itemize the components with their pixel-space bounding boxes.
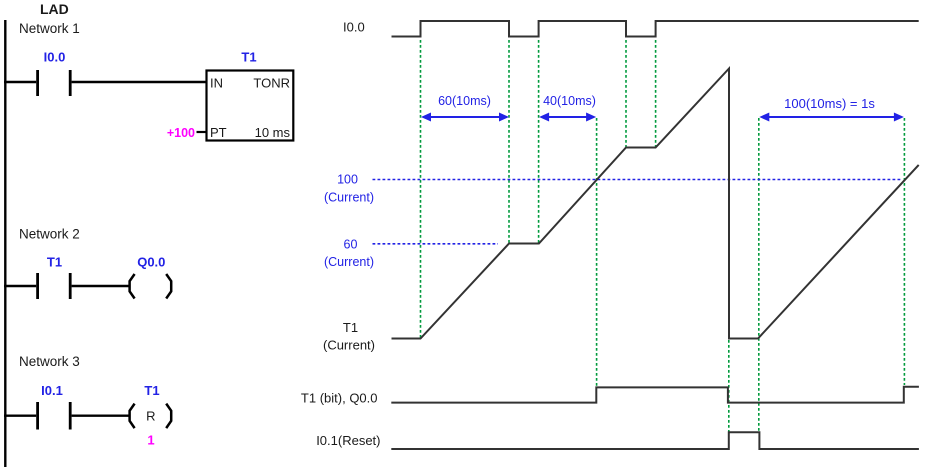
svg-text:I0.0: I0.0 <box>343 20 365 35</box>
svg-text:IN: IN <box>210 76 223 91</box>
arrow 60(10ms) <box>421 113 509 122</box>
wire rail to contact I0.1 <box>4 415 36 417</box>
wire rail to contact I0.0 <box>4 81 36 83</box>
contact T1 <box>38 273 71 299</box>
timeline at t=0 start <box>420 40 422 339</box>
wire contact T1 to coil Q0.0 <box>72 285 129 287</box>
timer T1 box TONR <box>207 71 294 141</box>
svg-text:(Current): (Current) <box>324 255 374 269</box>
timeline at second pulse start <box>538 40 540 243</box>
timeline at PT reached again <box>903 118 905 385</box>
svg-text:Network 3: Network 3 <box>19 354 80 369</box>
svg-text:60(10ms): 60(10ms) <box>438 94 491 108</box>
wire PT stub <box>197 131 207 133</box>
svg-text:(Current): (Current) <box>323 338 375 353</box>
svg-text:1: 1 <box>147 433 154 448</box>
svg-text:LAD: LAD <box>40 1 69 17</box>
svg-text:10 ms: 10 ms <box>255 125 291 140</box>
svg-text:TONR: TONR <box>253 76 290 91</box>
timeline at second pulse end <box>625 40 627 148</box>
waveform T1 current value <box>392 69 919 339</box>
svg-text:+100: +100 <box>167 126 195 140</box>
wire contact I0.0 to timer T1 <box>72 81 207 83</box>
coil T1 reset <box>130 404 172 429</box>
arrow 100(10ms)=1s <box>759 113 904 122</box>
arrow 40(10ms) <box>539 113 596 122</box>
timeline at PT reached <box>596 118 598 388</box>
level line 100 <box>373 179 903 181</box>
waveform I0.1 reset <box>391 432 919 449</box>
left power rail <box>4 20 6 467</box>
timeline at first pulse end <box>508 40 510 243</box>
svg-text:Network 2: Network 2 <box>19 227 80 242</box>
svg-text:(Current): (Current) <box>324 191 374 205</box>
waveform T1 bit Q0.0 <box>391 387 919 403</box>
contact I0.1 <box>38 402 71 430</box>
svg-text:60: 60 <box>344 237 358 251</box>
svg-text:100: 100 <box>337 173 358 187</box>
wire rail to contact T1 <box>4 285 36 287</box>
coil Q0.0 <box>130 274 172 299</box>
svg-text:T1: T1 <box>144 383 159 398</box>
svg-text:T1: T1 <box>47 255 62 270</box>
timeline at reset start <box>728 340 730 432</box>
svg-text:R: R <box>146 408 155 423</box>
svg-text:I0.1(Reset): I0.1(Reset) <box>316 433 380 448</box>
contact I0.0 <box>38 70 71 96</box>
svg-text:T1: T1 <box>343 320 358 335</box>
svg-text:PT: PT <box>210 125 227 140</box>
timeline at reset end <box>758 118 760 432</box>
waveform I0.0 <box>392 21 919 37</box>
svg-text:Network 1: Network 1 <box>19 21 80 36</box>
svg-text:I0.1: I0.1 <box>41 383 63 398</box>
svg-text:T1: T1 <box>241 50 256 65</box>
level line 60 <box>373 243 499 245</box>
timeline at third pulse start <box>655 40 657 148</box>
svg-text:T1 (bit), Q0.0: T1 (bit), Q0.0 <box>301 391 378 406</box>
svg-text:100(10ms) = 1s: 100(10ms) = 1s <box>784 96 875 111</box>
wire contact I0.1 to coil T1 reset <box>72 415 129 417</box>
svg-text:Q0.0: Q0.0 <box>137 255 165 270</box>
svg-text:40(10ms): 40(10ms) <box>543 94 596 108</box>
svg-text:I0.0: I0.0 <box>44 50 66 65</box>
